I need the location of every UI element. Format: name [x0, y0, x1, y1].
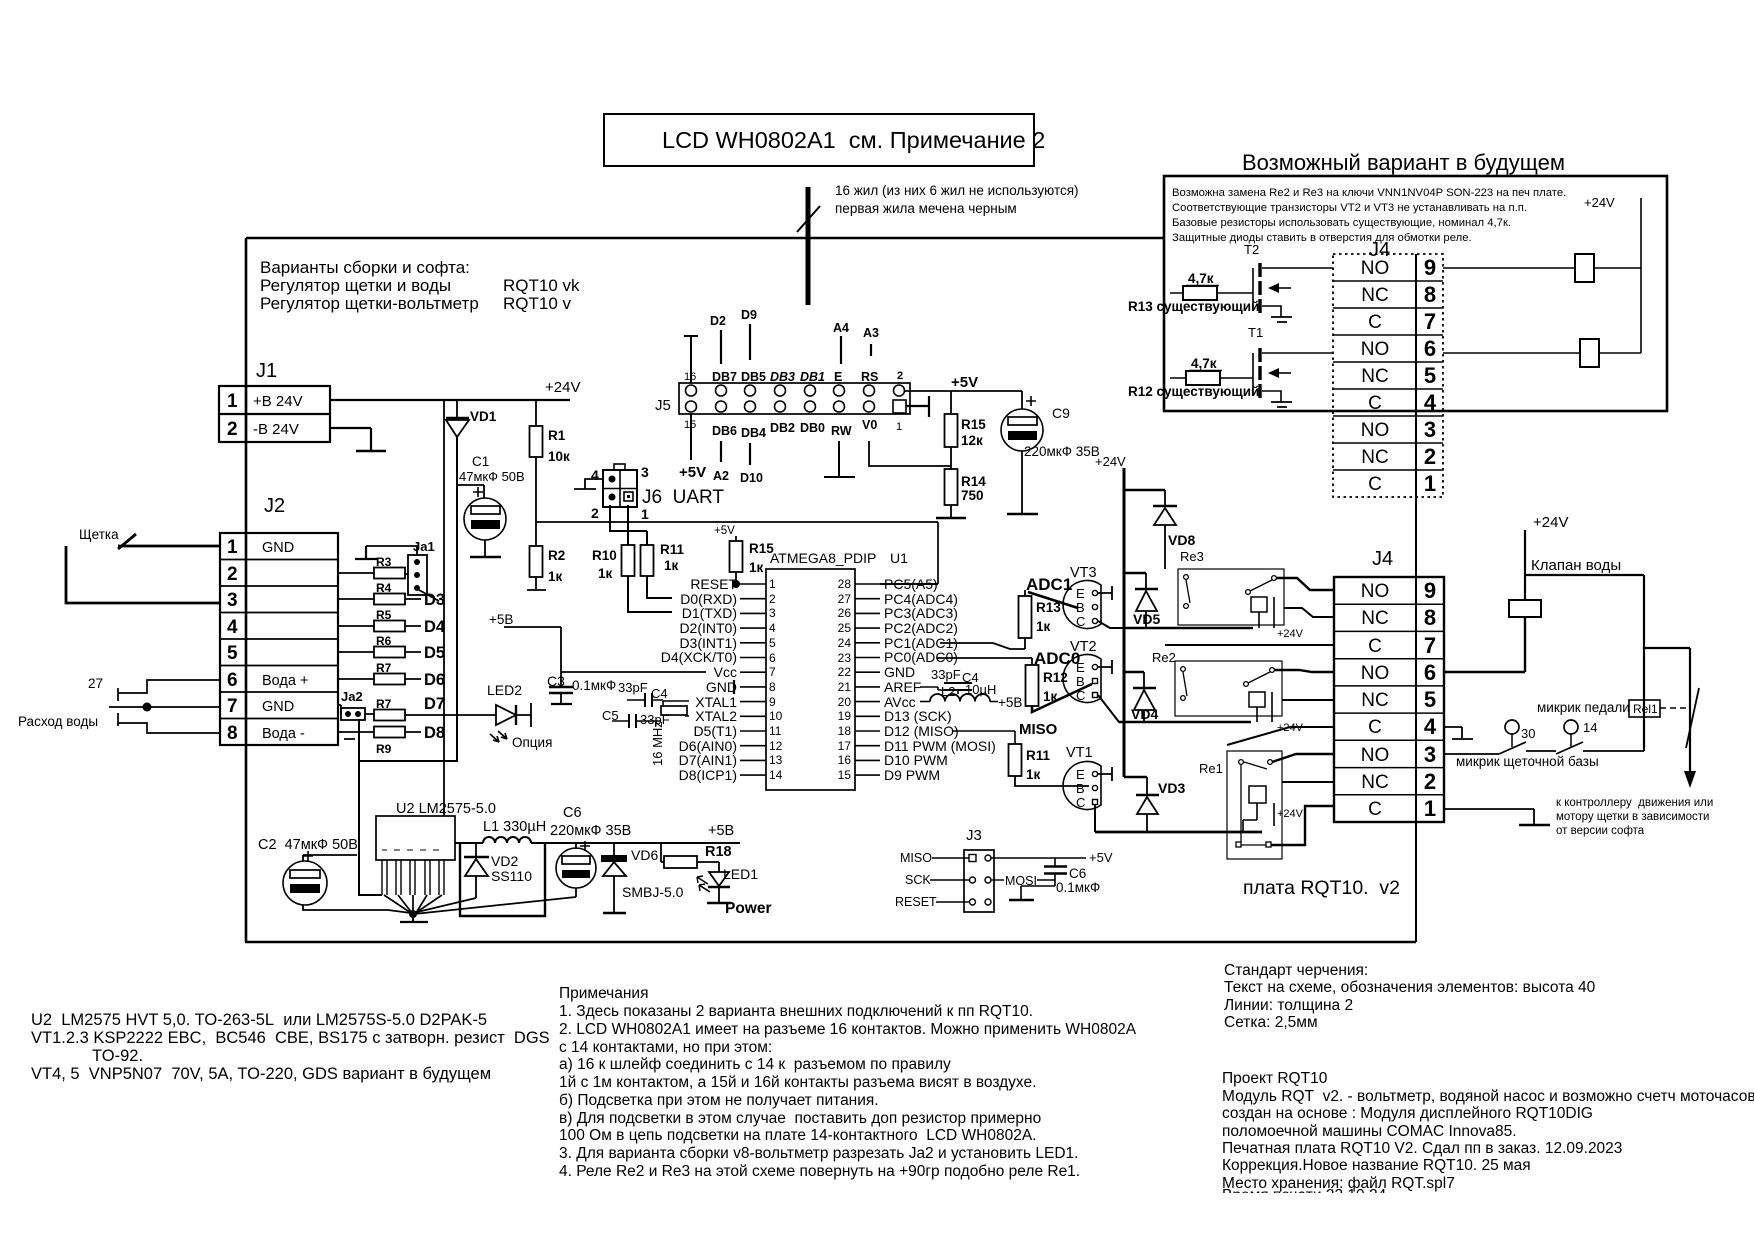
wire J4 divider / board edge [1415, 254, 1417, 942]
svg-text:GND: GND [262, 699, 294, 715]
wire Re1 C to J4.1 [1271, 806, 1334, 845]
svg-text:7: 7 [769, 665, 776, 679]
svg-text:26: 26 [838, 606, 852, 620]
svg-text:8: 8 [1424, 605, 1436, 630]
wire +24V to regulator [443, 400, 445, 816]
svg-text:XTAL2: XTAL2 [695, 708, 737, 724]
svg-text:+24V: +24V [1277, 628, 1304, 640]
svg-text:25: 25 [838, 621, 852, 635]
wire VD1 down to supply node [359, 437, 457, 895]
ground (J4.4) [1444, 727, 1473, 739]
svg-text:VD1: VD1 [470, 409, 497, 424]
svg-text:Возможный вариант в будущем: Возможный вариант в будущем [1242, 150, 1565, 175]
svg-text:+5В: +5В [708, 823, 734, 839]
svg-text:Опция: Опция [512, 735, 552, 750]
svg-text:2: 2 [769, 592, 776, 606]
wire coil rail Re2 [1119, 721, 1251, 723]
svg-text:R7: R7 [376, 697, 392, 711]
svg-text:2: 2 [227, 419, 238, 440]
capacitor C1 [457, 454, 525, 557]
svg-text:DB2: DB2 [770, 421, 795, 435]
svg-text:GND: GND [706, 679, 737, 695]
relay coil water valve [1509, 514, 1644, 617]
svg-text:220мкФ 35В: 220мкФ 35В [550, 823, 631, 839]
wire J5.16 pullup stub [684, 336, 698, 383]
svg-text:D3: D3 [424, 591, 445, 609]
svg-text:U2 LM2575-5.0: U2 LM2575-5.0 [396, 801, 496, 817]
svg-text:33pF: 33pF [931, 667, 961, 682]
wire J4.1 to ground [1444, 809, 1534, 824]
svg-text:8: 8 [227, 723, 238, 744]
svg-text:6: 6 [1424, 336, 1436, 361]
svg-text:8: 8 [1424, 282, 1436, 307]
svg-text:C: C [1368, 474, 1382, 495]
svg-text:5: 5 [1424, 363, 1436, 388]
svg-text:VD4: VD4 [1131, 706, 1158, 722]
svg-text:+24V: +24V [545, 379, 580, 396]
wire J5.1 terminator [906, 396, 929, 417]
connector J5 (LCD header) [655, 370, 910, 440]
svg-text:D13 (SCK): D13 (SCK) [884, 708, 952, 724]
svg-text:D5(T1): D5(T1) [693, 723, 737, 739]
svg-text:B: B [1076, 781, 1085, 796]
wire +24V relay feed [1095, 454, 1165, 777]
svg-text:RESET: RESET [690, 576, 737, 592]
svg-text:9: 9 [769, 695, 776, 709]
wire J4.3 switch chain [1444, 751, 1644, 754]
resistor R5 [338, 608, 446, 636]
svg-text:14: 14 [1583, 720, 1597, 735]
resistor R18 [661, 843, 732, 868]
svg-text:A4: A4 [833, 321, 849, 335]
svg-text:+5V: +5V [1089, 850, 1113, 865]
svg-text:2. LCD WH0802A1 имеет на разъе: 2. LCD WH0802A1 имеет на разъеме 16 конт… [559, 1021, 1137, 1038]
svg-text:30: 30 [1521, 726, 1535, 741]
svg-text:D4: D4 [424, 618, 446, 636]
svg-text:C: C [1368, 393, 1382, 414]
wire Re1 NC to J4.2 [1282, 781, 1334, 783]
svg-text:в) Для подсветки в этом случае: в) Для подсветки в этом случае поставить… [559, 1110, 1041, 1127]
svg-text:0.1мкФ: 0.1мкФ [1056, 880, 1100, 895]
transistor VT3 [1063, 565, 1124, 629]
microswitch 14 [1556, 720, 1597, 754]
node D9 [741, 308, 757, 360]
wire GND pin8 terminator [733, 680, 735, 694]
connector J6 UART [591, 464, 724, 522]
svg-text:4,7к: 4,7к [1191, 356, 1217, 371]
svg-text:R4: R4 [376, 581, 392, 595]
svg-text:47мкФ 50В: 47мкФ 50В [459, 469, 525, 484]
svg-text:плата RQT10. v2: плата RQT10. v2 [1243, 877, 1400, 899]
svg-text:LED2: LED2 [487, 682, 522, 698]
svg-text:D6: D6 [424, 671, 445, 689]
ground (J5 RW) [824, 441, 855, 477]
svg-text:VT4, 5 VNP5N07 70V, 5A, TO-2: VT4, 5 VNP5N07 70V, 5A, TO-220, GDS вари… [31, 1065, 491, 1083]
svg-text:B: B [1076, 674, 1085, 689]
svg-text:D10 PWM: D10 PWM [884, 752, 948, 768]
wire J1.2 to ground [330, 428, 371, 450]
svg-text:+24V: +24V [1533, 514, 1568, 531]
ground (LED1) [707, 902, 731, 904]
svg-text:33pF: 33pF [618, 680, 648, 695]
microswitch 30 [1499, 720, 1535, 754]
wire +24V rail from J1.1 [330, 379, 580, 400]
note to controller [1556, 797, 1713, 837]
svg-text:-B 24V: -B 24V [253, 421, 299, 438]
svg-text:Сетка: 2,5мм: Сетка: 2,5мм [1224, 1014, 1318, 1031]
svg-text:VD5: VD5 [1133, 611, 1160, 627]
svg-text:Текст на схеме, обозначения эл: Текст на схеме, обозначения элементов: в… [1224, 979, 1596, 996]
svg-text:4. Реле Re2 и Re3 на этой схем: 4. Реле Re2 и Re3 на этой схеме повернут… [559, 1163, 1080, 1180]
wire V0 to divider [869, 441, 951, 466]
svg-text:Вода -: Вода - [262, 726, 305, 742]
svg-text:DB1: DB1 [800, 370, 825, 384]
resistor R7 (second) [374, 695, 445, 721]
svg-text:NO: NO [1361, 258, 1390, 279]
svg-text:1й с 1м контактом, а 15й и 16й: 1й с 1м контактом, а 15й и 16й контакты … [559, 1074, 1036, 1091]
svg-text:19: 19 [838, 709, 852, 723]
transistor T1 [1248, 325, 1333, 407]
svg-text:DB3: DB3 [770, 370, 795, 384]
svg-text:C: C [1076, 795, 1085, 810]
svg-text:4: 4 [227, 617, 238, 638]
svg-text:6: 6 [227, 670, 238, 691]
svg-text:J4: J4 [1372, 548, 1393, 570]
svg-text:D4(XCK/T0): D4(XCK/T0) [661, 649, 737, 665]
svg-text:Примечания: Примечания [559, 985, 649, 1002]
svg-text:9: 9 [1424, 578, 1436, 603]
svg-text:E: E [1076, 586, 1085, 601]
diode VD3 [1136, 777, 1185, 832]
resistor R1 [530, 400, 571, 546]
diode VD5 [1133, 573, 1160, 628]
svg-text:+24V: +24V [1277, 808, 1304, 820]
svg-text:R15: R15 [961, 417, 986, 432]
diode VD2 SS110 [464, 843, 532, 898]
diode VD6 SMBJ-5.0 [601, 843, 684, 912]
svg-text:B: B [1076, 600, 1085, 615]
resistor R11 [610, 505, 685, 598]
resistor R7 [338, 661, 445, 689]
svg-text:11: 11 [769, 724, 782, 738]
wire J5.2 to +5V [905, 374, 978, 391]
wire output loop [460, 843, 545, 916]
svg-text:220мкФ 35В: 220мкФ 35В [1024, 444, 1100, 459]
svg-text:PC2(ADC2): PC2(ADC2) [884, 620, 958, 636]
inductor L2 10uH [920, 682, 1022, 710]
svg-text:2: 2 [227, 564, 238, 585]
svg-text:L1 330µH: L1 330µH [483, 819, 546, 835]
svg-text:4: 4 [1424, 714, 1437, 739]
svg-text:4: 4 [1424, 390, 1437, 415]
project note [1222, 1070, 1754, 1204]
svg-text:D9: D9 [741, 308, 757, 322]
node D2 [710, 314, 726, 364]
svg-text:RW: RW [831, 424, 852, 438]
svg-text:100 Ом в цепь подсветки на пла: 100 Ом в цепь подсветки на плате 14-конт… [559, 1127, 1037, 1144]
svg-text:16 жил (из них 6 жил не исполь: 16 жил (из них 6 жил не используются) [835, 183, 1079, 198]
svg-text:D12 (MISO): D12 (MISO) [884, 723, 959, 739]
svg-text:NO: NO [1361, 339, 1390, 360]
resistor R2 [527, 546, 565, 590]
svg-text:микрик педали: микрик педали [1537, 700, 1630, 715]
svg-text:NO: NO [1361, 420, 1390, 441]
wire +5V mid rail [536, 522, 938, 584]
svg-text:23: 23 [838, 651, 852, 665]
svg-text:DB7: DB7 [712, 370, 737, 384]
svg-text:SMBJ-5.0: SMBJ-5.0 [622, 884, 684, 900]
svg-text:Модуль RQT v2. - вольтметр, в: Модуль RQT v2. - вольтметр, водяной насо… [1222, 1088, 1754, 1105]
svg-text:NC: NC [1361, 366, 1388, 387]
svg-text:R13 существующий: R13 существующий [1128, 299, 1259, 314]
svg-text:J3: J3 [966, 827, 982, 844]
diode VD1 [446, 400, 497, 437]
svg-text:R11: R11 [1026, 748, 1051, 763]
svg-text:DB6: DB6 [712, 424, 737, 438]
svg-text:D10: D10 [740, 471, 763, 485]
svg-text:1. Здесь показаны 2 варианта в: 1. Здесь показаны 2 варианта внешних под… [559, 1003, 1033, 1020]
wire Re2 NO to J4.6 [1274, 670, 1334, 672]
svg-text:Возможна замена Re2 и Re3 на к: Возможна замена Re2 и Re3 на ключи VNN1N… [1172, 187, 1566, 199]
ground (J2.1) [355, 546, 377, 559]
capacitor C6 (0.1uF) [1021, 858, 1100, 899]
notes Примечания [559, 985, 1137, 1180]
svg-text:RQT10 vk: RQT10 vk [503, 276, 580, 295]
ground (C9) [1007, 513, 1038, 516]
svg-text:Регулятор щетки-вольтметр: Регулятор щетки-вольтметр [260, 294, 479, 313]
svg-text:12: 12 [769, 739, 783, 753]
svg-text:T2: T2 [1244, 242, 1259, 257]
connector J1 [219, 360, 330, 442]
svg-text:U1: U1 [890, 550, 908, 566]
resistor R6 [338, 634, 445, 662]
svg-text:R5: R5 [376, 608, 392, 622]
svg-text:C: C [1368, 312, 1382, 333]
svg-text:Коррекция.Новое название RQT10: Коррекция.Новое название RQT10. 25 мая [1222, 1157, 1531, 1174]
svg-text:Защитные диоды ставить в отвер: Защитные диоды ставить в отверстия для о… [1172, 232, 1472, 244]
svg-text:C: C [1076, 688, 1085, 703]
svg-text:5: 5 [227, 643, 238, 664]
relay coil (future top) [1443, 254, 1641, 282]
drawing standard note [1224, 962, 1596, 1031]
svg-text:+B 24V: +B 24V [253, 393, 303, 410]
wire +24V (future) [1584, 195, 1641, 353]
inductor L1 [455, 819, 546, 843]
assembly variants note [260, 258, 580, 313]
svg-text:C: C [1368, 799, 1382, 820]
svg-text:Щетка: Щетка [79, 527, 119, 542]
svg-text:D2(INT0): D2(INT0) [679, 620, 737, 636]
svg-text:6: 6 [769, 651, 776, 665]
svg-text:MISO: MISO [900, 851, 932, 865]
relay contact Rel1 [1629, 700, 1686, 717]
svg-text:D9 PWM: D9 PWM [884, 767, 940, 783]
svg-text:1: 1 [227, 391, 238, 412]
svg-text:VD8: VD8 [1168, 532, 1195, 548]
ground (R14) [936, 517, 966, 520]
relay Re2 [1152, 650, 1304, 734]
svg-text:D7: D7 [424, 695, 445, 713]
svg-text:15: 15 [838, 768, 852, 782]
svg-text:MISO: MISO [1019, 721, 1058, 738]
relay Re1 [1199, 751, 1304, 859]
svg-text:NC: NC [1361, 608, 1388, 629]
wire coil rail Re3 [1124, 627, 1253, 629]
svg-text:16: 16 [838, 753, 852, 767]
wire D7 net to LED2 [405, 714, 496, 716]
supply star node [409, 910, 417, 918]
svg-text:VD6: VD6 [631, 847, 658, 863]
svg-text:а) 16 к шлейф соединить с 14 к: а) 16 к шлейф соединить с 14 к разъемом … [559, 1056, 951, 1073]
wire +5V output rail [531, 823, 740, 843]
svg-text:C6: C6 [563, 805, 582, 821]
svg-text:ADC1: ADC1 [1026, 575, 1072, 594]
resistor R3 [338, 555, 408, 579]
svg-text:U2 LM2575 HVT 5,0. TO-263-5L: U2 LM2575 HVT 5,0. TO-263-5L или LM2575S… [31, 1011, 487, 1029]
svg-text:Базовые резисторы использовать: Базовые резисторы использовать существую… [1172, 217, 1511, 229]
svg-text:микрик щеточной базы: микрик щеточной базы [1456, 754, 1599, 769]
svg-text:J6 UART: J6 UART [642, 487, 724, 508]
svg-text:Re2: Re2 [1152, 650, 1176, 665]
svg-text:4: 4 [769, 621, 776, 635]
svg-text:LCD WH0802A1 см. Примечание 2: LCD WH0802A1 см. Примечание 2 [662, 127, 1045, 153]
svg-text:3: 3 [1424, 742, 1436, 767]
resistor R13 (existing 4.7k) [1128, 271, 1259, 314]
svg-text:DB5: DB5 [741, 370, 766, 384]
svg-text:R1: R1 [548, 428, 566, 443]
wire RESET net [736, 583, 740, 585]
resistor R11 (base VT1) [1009, 744, 1090, 786]
svg-text:1к: 1к [749, 560, 764, 575]
svg-text:R14: R14 [961, 474, 986, 489]
LED LED1 Power [697, 862, 772, 917]
svg-text:Регулятор щетки и воды: Регулятор щетки и воды [260, 276, 451, 295]
svg-text:PC3(ADC3): PC3(ADC3) [884, 605, 958, 621]
svg-text:от версии софта: от версии софта [1556, 825, 1645, 837]
svg-text:R7: R7 [376, 661, 392, 675]
svg-text:б) Подсветка при этом не получ: б) Подсветка при этом не получает питани… [559, 1092, 879, 1109]
connector J4 (future, dashed) [1333, 239, 1443, 497]
capacitor C9 [951, 391, 1100, 513]
svg-text:Печатная плата RQT10 V2. Сдал: Печатная плата RQT10 V2. Сдал пп в заказ… [1222, 1140, 1622, 1157]
svg-text:18: 18 [838, 724, 852, 738]
svg-text:GND: GND [262, 540, 294, 556]
arrow to motor controller [1684, 648, 1699, 788]
svg-text:9: 9 [1424, 255, 1436, 280]
svg-text:+5V: +5V [714, 525, 735, 537]
svg-text:R6: R6 [376, 634, 392, 648]
wire Vcc rail [561, 671, 706, 673]
svg-text:7: 7 [1424, 633, 1436, 658]
svg-text:750: 750 [961, 488, 984, 503]
svg-text:TO-92.: TO-92. [92, 1047, 143, 1065]
resistor R15 (12k) [945, 391, 987, 469]
svg-text:Варианты сборки и софта:: Варианты сборки и софта: [260, 258, 470, 277]
svg-text:DB4: DB4 [741, 426, 766, 440]
capacitor C3 [547, 673, 616, 704]
svg-text:+5В: +5В [998, 695, 1022, 710]
svg-text:C2 47мкФ 50В: C2 47мкФ 50В [258, 837, 358, 853]
svg-text:C: C [1368, 636, 1382, 657]
svg-text:R10: R10 [592, 548, 617, 563]
svg-text:VT3: VT3 [1070, 565, 1097, 581]
node A3 [863, 326, 879, 356]
connector J3 [895, 827, 994, 912]
regulator U2 LM2575 [376, 801, 496, 913]
svg-text:17: 17 [838, 739, 852, 753]
svg-text:R13: R13 [1036, 600, 1061, 615]
svg-text:VT1.2.3 KSP2222 EBC, BC546 C: VT1.2.3 KSP2222 EBC, BC546 CBE, BS175 с … [31, 1029, 550, 1047]
resistor R10 [592, 505, 672, 612]
svg-text:1: 1 [769, 577, 776, 591]
svg-text:создан на основе : Модуля дисп: создан на основе : Модуля дисплейного RQ… [1222, 1105, 1593, 1122]
wire AREF / AVcc cluster [920, 667, 979, 694]
svg-text:D2: D2 [710, 314, 726, 328]
svg-text:мотору щетки в зависимости: мотору щетки в зависимости [1556, 811, 1709, 823]
wire PC5 net [880, 583, 938, 585]
svg-text:C: C [1076, 614, 1085, 629]
svg-text:SCK: SCK [905, 873, 931, 887]
resistor R4 [338, 581, 445, 609]
svg-text:Стандарт черчения:: Стандарт черчения: [1224, 962, 1368, 979]
svg-text:1: 1 [896, 421, 902, 433]
svg-text:1к: 1к [1036, 619, 1051, 634]
svg-text:R12 существующий: R12 существующий [1128, 384, 1259, 399]
svg-text:D7(AIN1): D7(AIN1) [679, 752, 737, 768]
svg-text:1к: 1к [598, 566, 613, 581]
svg-text:8: 8 [769, 680, 776, 694]
resistor R12 [937, 658, 1092, 712]
node ADC1 [1026, 575, 1078, 608]
relay coil (future bottom) [1443, 339, 1641, 367]
svg-text:1: 1 [1424, 471, 1436, 496]
svg-text:Ja2: Ja2 [341, 689, 363, 704]
svg-text:24: 24 [838, 636, 852, 650]
svg-text:2: 2 [897, 370, 903, 382]
svg-text:ATMEGA8_PDIP: ATMEGA8_PDIP [770, 550, 876, 566]
svg-text:D8(ICP1): D8(ICP1) [679, 767, 737, 783]
wire J3 +5V rail [991, 850, 1113, 888]
svg-text:3: 3 [227, 590, 238, 611]
svg-text:к контроллеру движения или: к контроллеру движения или [1556, 797, 1713, 809]
svg-text:D5: D5 [424, 644, 445, 662]
svg-text:поломоечной машины COMAC Innov: поломоечной машины COMAC Innova85. [1222, 1123, 1517, 1140]
svg-text:C: C [1368, 717, 1382, 738]
svg-text:C4: C4 [651, 686, 668, 701]
ground (J4.1) [1519, 824, 1550, 827]
wire Re2 NC to J4.5 [1282, 699, 1334, 701]
svg-text:SS110: SS110 [491, 868, 532, 884]
svg-text:13: 13 [769, 753, 783, 767]
crystal 16 MHz [650, 701, 689, 766]
svg-text:RQT10 v: RQT10 v [503, 294, 572, 313]
svg-text:10: 10 [769, 709, 783, 723]
svg-text:+5V: +5V [679, 464, 706, 481]
svg-text:Проект RQT10: Проект RQT10 [1222, 1070, 1328, 1087]
svg-text:1к: 1к [548, 569, 563, 584]
brush switch Щетка [66, 527, 220, 603]
svg-text:Re1: Re1 [1199, 761, 1223, 776]
svg-text:AREF: AREF [884, 679, 921, 695]
node +5V (J5.15) [679, 414, 706, 481]
node A2 [713, 441, 729, 483]
svg-text:4: 4 [591, 467, 599, 483]
svg-text:4,7к: 4,7к [1188, 271, 1214, 286]
svg-text:E: E [834, 370, 842, 384]
transistor VT1 [1063, 745, 1112, 832]
capacitor C4 (33pF) [618, 680, 668, 707]
svg-text:T1: T1 [1248, 325, 1263, 340]
